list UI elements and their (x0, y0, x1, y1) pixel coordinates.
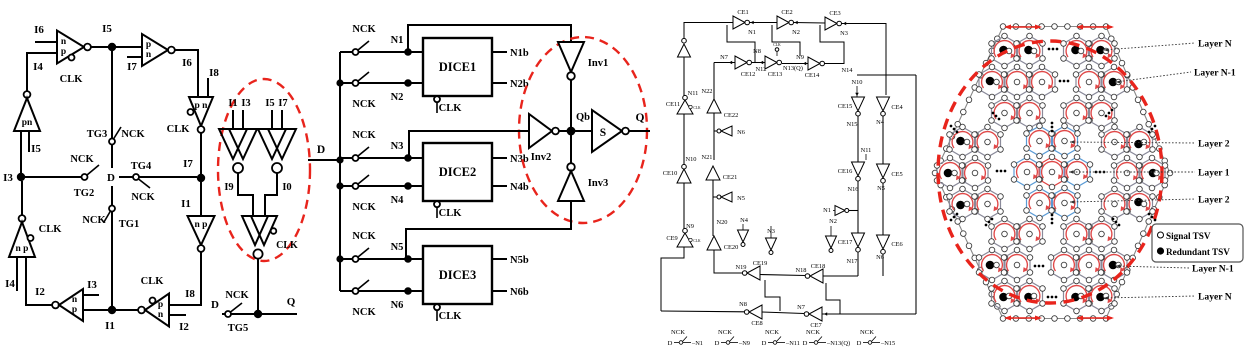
wire CE2 to CE3 with arrow (794, 22, 826, 25)
svg-text:CE16: CE16 (838, 168, 853, 175)
svg-text:CE2: CE2 (781, 9, 792, 16)
svg-text:Layer 2: Layer 2 (1198, 195, 1230, 206)
svg-text:p: p (61, 47, 66, 57)
svg-text:D: D (715, 340, 720, 347)
C-element CE7 (left) (804, 312, 809, 317)
svg-text:n p: n p (16, 244, 29, 254)
TSV cluster TR0 (1064, 36, 1090, 66)
inverter Inv3 (pointing up) (567, 163, 575, 171)
panel 4: TSV hexagon layout (932, 24, 1243, 322)
wire I2 input stub of U8 (169, 314, 186, 316)
clock bubble of U3 (188, 109, 194, 115)
svg-text:CLK: CLK (773, 43, 781, 47)
wire I6 input stub (35, 41, 57, 43)
svg-text:CLK: CLK (60, 74, 84, 85)
TSV cluster TL5 (992, 98, 1018, 128)
svg-text:CLK: CLK (276, 240, 298, 251)
wire to Q (258, 313, 297, 315)
wire CE16 down to CE17 (857, 181, 859, 233)
switch NCK for N6 (340, 290, 352, 292)
svg-text:N1: N1 (748, 29, 756, 36)
svg-text:Inv1: Inv1 (588, 58, 608, 69)
svg-text:TG2: TG2 (74, 188, 94, 199)
output N1b of DICE1 (492, 51, 507, 53)
ddots right corner (1148, 125, 1157, 134)
C-element CE8 (left) (744, 310, 749, 315)
TSV cluster R5 (1102, 189, 1128, 219)
svg-text:CE5: CE5 (891, 171, 902, 178)
ellipsis row2 (1059, 80, 1070, 83)
wire B1 up to CE1 rail (684, 23, 710, 39)
C-element CE14 (808, 57, 820, 70)
svg-text:CLK: CLK (439, 208, 463, 219)
svg-text:CLK: CLK (39, 224, 63, 235)
label Layer N with leader (1104, 43, 1195, 50)
svg-text:Q: Q (287, 296, 296, 308)
svg-text:D: D (762, 340, 767, 347)
red arrow bottom-right edge (1078, 317, 1112, 319)
wire N5 to DICE3 (408, 258, 423, 260)
svg-text:CE9: CE9 (666, 235, 677, 242)
wire U5 output down to I8 corner (168, 252, 201, 305)
svg-text:I8: I8 (185, 288, 195, 300)
wire X3 output down (257, 259, 259, 314)
C-element CE19 (left) (742, 271, 747, 276)
svg-text:TG5: TG5 (228, 323, 248, 334)
svg-text:N3b: N3b (510, 154, 529, 165)
svg-text:N5: N5 (737, 195, 745, 202)
TSV cluster C1 (1052, 126, 1078, 156)
label Layer 1 with leader (1069, 171, 1195, 173)
output N2b of DICE1 (492, 82, 507, 84)
svg-text:–N15: –N15 (880, 340, 895, 347)
TSV cluster C4 (1064, 157, 1090, 187)
red dashed ellipse (panel1) (218, 79, 310, 261)
output N4b of DICE2 (492, 185, 507, 187)
outer right rail (915, 75, 917, 314)
wire stair CE2 down (772, 25, 800, 56)
TSV cluster BR0 (1064, 219, 1090, 249)
inverter tap N6 (714, 130, 717, 132)
switch NCK for N2 (340, 82, 352, 84)
svg-text:Layer N: Layer N (1198, 39, 1232, 50)
TSV cluster BR6 (1089, 281, 1115, 311)
TSV cluster R0 (1102, 127, 1128, 157)
wire CE11 down (683, 114, 685, 166)
C-element CE1 (733, 16, 745, 29)
svg-text:N10: N10 (851, 79, 862, 86)
svg-text:CLK: CLK (693, 106, 701, 110)
output N3b of DICE2 (492, 157, 507, 159)
wire I4 vertical + corner to inverter input (27, 53, 57, 91)
TSV cluster C3 (1039, 157, 1065, 187)
svg-text:TG3: TG3 (87, 129, 107, 140)
wire N1 to DICE1 (408, 51, 423, 53)
svg-text:CLK: CLK (167, 124, 191, 135)
TSV cluster C2 (1014, 157, 1040, 187)
switch NCK for N3 (340, 157, 352, 159)
wire CE17 down to CE18 wire (857, 252, 859, 276)
svg-text:I4: I4 (33, 61, 43, 73)
TSV cluster TL3 (1004, 67, 1030, 97)
svg-text:p: p (158, 300, 163, 310)
svg-text:N17: N17 (846, 258, 858, 265)
node TG5 junction (254, 310, 262, 318)
svg-text:I2: I2 (35, 286, 45, 298)
svg-text:I0: I0 (282, 182, 291, 193)
svg-text:N9: N9 (796, 54, 804, 61)
svg-text:n: n (158, 310, 164, 320)
block DICE3 (423, 246, 492, 304)
ellipsis left mid (996, 170, 1007, 173)
svg-text:DICE3: DICE3 (439, 268, 477, 282)
TSV cluster TL4 (1029, 67, 1055, 97)
wire CE10 down (683, 183, 685, 229)
label Layer 2 with leader (1070, 142, 1195, 143)
svg-text:NCK: NCK (671, 329, 685, 336)
svg-text:CE7: CE7 (810, 322, 822, 329)
svg-text:Inv2: Inv2 (531, 152, 551, 163)
svg-text:N16: N16 (847, 186, 858, 193)
svg-text:p: p (72, 305, 77, 315)
svg-text:NCK: NCK (131, 192, 155, 203)
panel 2: DICE triple-redundancy latch (308, 24, 650, 322)
C-element CE9 (clocked, up) (683, 228, 688, 233)
stair wire s2 (826, 283, 840, 314)
svg-text:N8: N8 (739, 301, 747, 308)
wire I9 to X3 (238, 173, 253, 216)
TSV cluster BL5 (992, 281, 1018, 311)
TSV cluster TL1 (1017, 36, 1043, 66)
svg-text:Qb: Qb (576, 112, 590, 123)
svg-text:DICE2: DICE2 (439, 165, 477, 179)
TSV cluster TL0 (992, 36, 1018, 66)
svg-text:N3: N3 (391, 141, 404, 152)
inverter U8 (pn, pointing left, bottom-right) (138, 307, 145, 314)
clock bubble of X3 (271, 228, 277, 234)
svg-text:CE14: CE14 (805, 72, 820, 79)
svg-text:N20: N20 (716, 219, 727, 226)
svg-text:Inv3: Inv3 (588, 178, 608, 189)
svg-text:CLK: CLK (693, 239, 701, 243)
wire N22 up to N7 (713, 63, 715, 100)
svg-text:N21: N21 (701, 154, 712, 161)
svg-text:Layer 1: Layer 1 (1198, 168, 1230, 179)
buffer B1 left (up) (682, 38, 687, 43)
bus junction dots (336, 79, 343, 86)
node N3 (404, 154, 412, 162)
svg-text:pn: pn (22, 118, 33, 128)
TSV cluster TR5 (1064, 98, 1090, 128)
C-element CE10 (up) (682, 164, 687, 169)
svg-text:N19: N19 (735, 264, 746, 271)
clock bubble of U8 (150, 298, 156, 304)
svg-text:CE6: CE6 (891, 241, 902, 248)
svg-text:I9: I9 (224, 182, 233, 193)
svg-text:CE3: CE3 (829, 10, 840, 17)
svg-text:N7: N7 (797, 304, 806, 311)
svg-text:N15: N15 (846, 121, 857, 128)
TSV cluster C0 (1027, 126, 1053, 156)
svg-text:I7: I7 (278, 98, 287, 109)
node N5 (404, 255, 412, 263)
wire D to bus (308, 159, 340, 161)
svg-text:CE11: CE11 (666, 101, 680, 108)
svg-text:D: D (668, 340, 673, 347)
svg-text:N13(Q): N13(Q) (783, 65, 803, 72)
TSV cluster BL6 (1017, 281, 1043, 311)
svg-text:N3: N3 (840, 30, 848, 37)
wire CE21 down (712, 180, 714, 236)
svg-text:NCK: NCK (225, 290, 249, 301)
svg-text:I7: I7 (127, 61, 137, 73)
switch NCK for N4 (340, 185, 352, 187)
svg-text:N6b: N6b (510, 287, 529, 298)
svg-text:CLK: CLK (141, 276, 165, 287)
ddots left corner (950, 125, 959, 134)
wire I1 to U8 (112, 309, 138, 311)
red dashed ellipse (panel4) (938, 41, 1162, 303)
svg-text:NCK: NCK (352, 307, 376, 318)
label Layer N-1 with leader (1116, 72, 1191, 82)
block DICE2 (423, 143, 492, 201)
TSV cluster R3 (1114, 158, 1140, 188)
inverter U2 (pn, top-right) (142, 34, 168, 66)
ellipsis top row (1048, 48, 1059, 51)
C-element CE2 (777, 16, 789, 29)
svg-text:n: n (61, 37, 67, 47)
svg-text:CE19: CE19 (753, 260, 768, 267)
clock bubble of U1 (69, 55, 75, 61)
label Layer N with leader (1104, 296, 1195, 298)
TSV cluster BR2 (1051, 250, 1077, 280)
clock pin of DICE1 (434, 96, 440, 102)
D bus vertical (339, 52, 341, 291)
wire U3 output to node I7 (200, 133, 202, 178)
TSV cluster BR5 (1064, 281, 1090, 311)
TSV cluster BR1 (1089, 219, 1115, 249)
svg-text:N1: N1 (823, 207, 831, 214)
node I3 (17, 173, 25, 181)
wire CE7 input from rail (822, 313, 916, 315)
wire CE15 to CE16 (857, 116, 859, 162)
svg-text:TG1: TG1 (119, 219, 139, 230)
inverter U4 (pn, pointing up, left side) (24, 91, 31, 98)
ddots upper right (1105, 109, 1114, 118)
wire U7 to node I1 (83, 309, 112, 311)
inverter U6 (np, pointing up, bottom-left) (21, 181, 23, 215)
node N4 (404, 182, 412, 190)
bottom rail wire Inv3 to N5 (406, 201, 571, 259)
wire N6 to DICE3 (408, 290, 423, 292)
wire CE3 output to right rail (842, 24, 887, 96)
svg-text:CLK: CLK (439, 103, 463, 114)
svg-text:S: S (600, 127, 606, 139)
C-element CE12 (735, 56, 747, 69)
svg-text:Signal TSV: Signal TSV (1166, 231, 1211, 241)
wire into CE1 from left (710, 22, 733, 24)
ddots lower left (985, 218, 994, 227)
svg-text:N10: N10 (685, 156, 696, 163)
switch NCK for N5 (340, 258, 352, 260)
svg-text:N6: N6 (391, 300, 404, 311)
svg-text:N14: N14 (841, 67, 853, 74)
svg-text:Layer 2: Layer 2 (1198, 139, 1230, 150)
clock stub of CE13 (775, 48, 779, 52)
wire I8 input stub vertical (207, 78, 209, 97)
TSV cluster TR3 (1076, 67, 1102, 97)
svg-text:D: D (317, 144, 325, 156)
inverter U5 (np, pointing down, right side) (188, 216, 215, 245)
svg-text:N4: N4 (391, 195, 405, 206)
node I7 (197, 174, 205, 182)
block DICE1 (423, 38, 492, 96)
C-element CE3 (825, 17, 837, 30)
hexagon die outline (935, 27, 1170, 319)
svg-text:CE12: CE12 (741, 71, 756, 78)
svg-text:–N9: –N9 (738, 340, 750, 347)
wire CE12 out up to CE1 (727, 25, 755, 63)
svg-text:CE17: CE17 (838, 239, 853, 246)
TSV cluster BL0 (992, 219, 1018, 249)
C-element CE13 (clocked) (765, 56, 777, 69)
node N2 (404, 79, 412, 87)
wire CE19 to CE18 (760, 275, 805, 276)
wire B1 down (683, 57, 685, 96)
TSV cluster BR4 (1101, 250, 1127, 280)
svg-text:NCK: NCK (82, 215, 106, 226)
svg-text:CE18: CE18 (811, 263, 826, 270)
svg-text:N8: N8 (753, 48, 761, 55)
clock pin of DICE2 (434, 201, 440, 207)
wire CE9 to outer left rail (661, 247, 684, 311)
wire I7 to U5 (200, 178, 202, 216)
wire S to Q (629, 130, 650, 132)
svg-text:N7: N7 (720, 54, 729, 61)
ddots right lower corner (1148, 213, 1157, 222)
svg-text:N4b: N4b (510, 182, 529, 193)
svg-text:Q: Q (636, 112, 645, 124)
svg-text:NCK: NCK (718, 329, 732, 336)
buffer S (592, 110, 622, 152)
svg-text:I1: I1 (228, 98, 237, 109)
C-element CE4 (down) (877, 97, 890, 111)
C-element CE18 (left) (805, 274, 810, 279)
inverter Inv2 (pointing right) (529, 114, 552, 148)
svg-text:Layer N-1: Layer N-1 (1194, 68, 1236, 79)
vdots lower gap (1051, 214, 1054, 225)
svg-text:p n: p n (195, 101, 209, 111)
wire U2 output to corner down (175, 50, 198, 97)
svg-text:D: D (857, 340, 862, 347)
svg-text:D: D (211, 299, 219, 311)
wire U8 upper input from I8 (168, 304, 201, 306)
wire CE5 down to CE6 (882, 183, 884, 235)
ddots lower right (1112, 218, 1121, 227)
wire N10 to outer right rail (857, 74, 916, 76)
svg-text:NCK: NCK (352, 24, 376, 35)
svg-text:–N13(Q): –N13(Q) (826, 340, 850, 347)
svg-text:CE20: CE20 (724, 244, 739, 251)
label Layer N-1 with leader (1116, 266, 1189, 268)
TSV cluster C5 (1027, 188, 1053, 218)
svg-text:Redundant TSV: Redundant TSV (1166, 247, 1230, 257)
wire CE22 down (713, 113, 715, 160)
svg-text:I3: I3 (87, 279, 97, 291)
svg-text:N22: N22 (701, 88, 712, 95)
wire CE20 down to CE19 (714, 250, 742, 273)
svg-text:n p: n p (195, 220, 208, 230)
svg-text:Layer N: Layer N (1198, 292, 1232, 303)
svg-text:n: n (146, 50, 152, 60)
wire Inv1 to Qb (570, 80, 572, 127)
ellipsis right mid (1095, 171, 1106, 174)
svg-text:N18: N18 (795, 267, 806, 274)
svg-text:NCK: NCK (352, 99, 376, 110)
C-element CE21 (up) (706, 166, 720, 180)
ddots left lower corner (950, 213, 959, 222)
TSV cluster BL2 (979, 250, 1005, 280)
C-element CE15 (down) (852, 97, 865, 111)
TSV cluster L0 (950, 127, 976, 157)
wire U1 output to node I5 (91, 46, 112, 48)
C-element CE6 (down) (877, 235, 890, 249)
ddots upper left (992, 112, 1001, 121)
TSV cluster C6 (1052, 188, 1078, 218)
svg-text:N5b: N5b (510, 255, 529, 266)
svg-text:CE1: CE1 (737, 9, 748, 16)
wire N1 tap to rail (849, 210, 858, 212)
wire CE4 to CE5 (882, 116, 884, 164)
switch NCK for N1 (340, 51, 352, 53)
TSV cluster R1 (1127, 127, 1153, 157)
node Qb (567, 127, 576, 136)
wire I7 input stub of U2 (127, 56, 142, 58)
svg-text:I5: I5 (102, 23, 112, 35)
svg-text:I2: I2 (179, 321, 189, 333)
TSV cluster L3 (962, 158, 988, 188)
svg-text:I6: I6 (182, 57, 192, 69)
wire N4 to DICE2 (408, 185, 423, 187)
wire I0 to X3 (265, 173, 277, 216)
TSV cluster BR3 (1076, 250, 1102, 280)
svg-text:CLK: CLK (439, 311, 463, 322)
svg-text:NCK: NCK (121, 129, 145, 140)
svg-text:CE15: CE15 (838, 103, 853, 110)
C-element CE20 (up) (707, 236, 721, 250)
svg-text:NCK: NCK (70, 154, 94, 165)
svg-text:N2: N2 (792, 29, 800, 36)
red arrow bottom-left edge (1006, 317, 1040, 319)
legend box Signal/Redundant TSV (1152, 224, 1243, 262)
C-element X2 (cross-coupled pair right) (258, 129, 286, 159)
C-element X3 (clocked, bottom of ellipse) (242, 216, 268, 245)
transmission gate TG3 (109, 139, 115, 145)
TSV cluster BL3 (1004, 250, 1030, 280)
svg-text:CE8: CE8 (751, 320, 762, 327)
svg-text:p: p (146, 40, 151, 50)
C-element CE17 (down) (852, 233, 865, 247)
svg-text:N6: N6 (737, 129, 745, 136)
wire Qb to S (571, 130, 592, 132)
svg-text:CE10: CE10 (663, 170, 678, 177)
clock bubble of U6 (28, 235, 34, 241)
wire I3 to TG2 (21, 176, 81, 178)
ellipsis bottom row (1047, 296, 1058, 299)
wire Qb to Inv3 (570, 135, 572, 163)
svg-text:N2: N2 (391, 92, 404, 103)
svg-text:–N11: –N11 (785, 340, 800, 347)
